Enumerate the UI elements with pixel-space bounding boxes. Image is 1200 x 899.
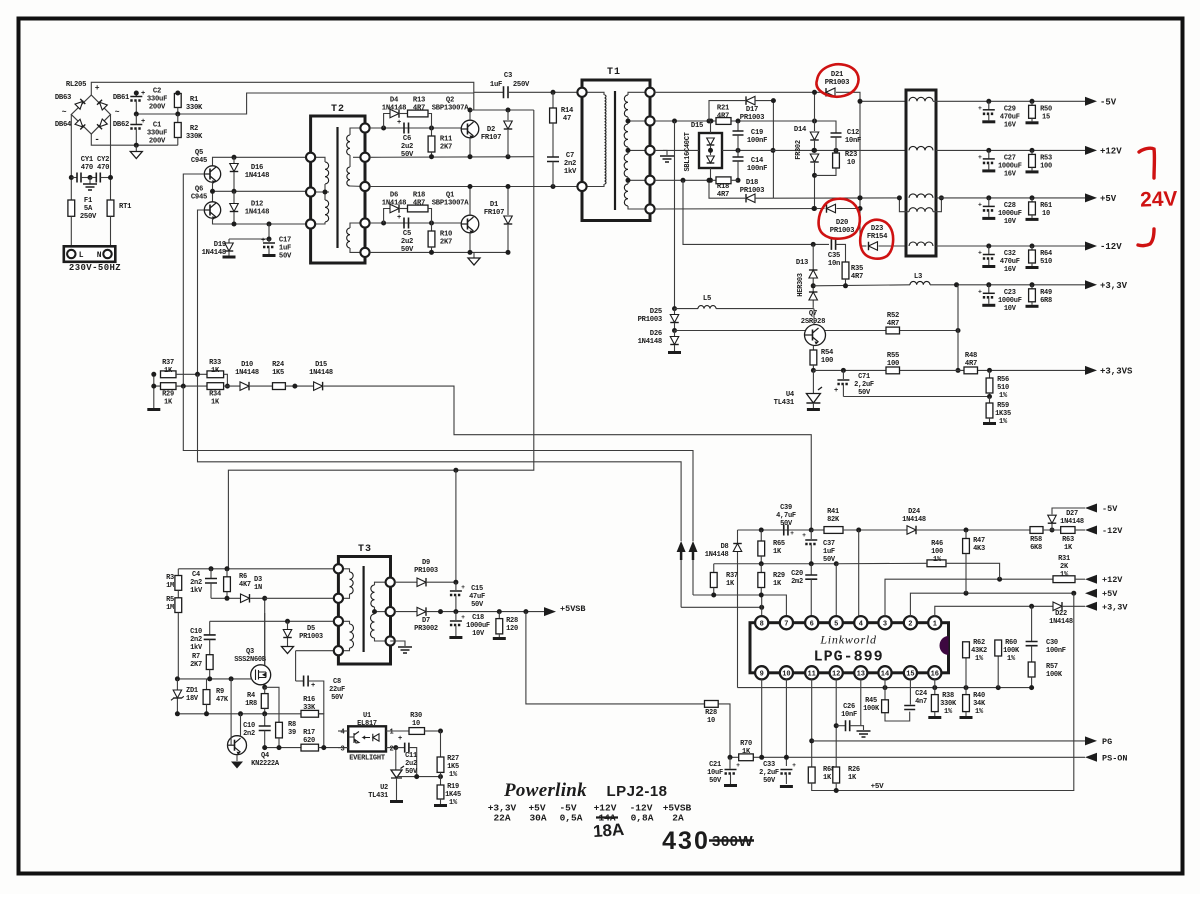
svg-text:12: 12	[832, 671, 840, 679]
svg-text:N: N	[97, 251, 102, 260]
svg-text:R64: R64	[1040, 250, 1052, 258]
junction	[181, 384, 186, 389]
wire Q7 collector	[813, 309, 815, 325]
resistor R45 100K	[884, 688, 886, 700]
svg-text:Q6: Q6	[195, 186, 203, 194]
svg-text:50V: 50V	[331, 694, 344, 702]
T3 secondary coil 1	[371, 585, 375, 607]
T1 terminal right 5	[645, 204, 654, 213]
svg-text:C10: C10	[190, 628, 202, 636]
svg-text:4R7: 4R7	[413, 200, 425, 208]
junction	[262, 596, 267, 601]
svg-text:R13: R13	[413, 97, 425, 105]
resistor R47 4K3	[965, 530, 967, 539]
T1 terminal right 3	[645, 146, 654, 155]
svg-text:1K35: 1K35	[995, 410, 1011, 418]
junction	[858, 206, 863, 211]
wire to D15 diode	[285, 385, 313, 387]
resistor R8 39	[276, 722, 283, 738]
svg-text:PR3002: PR3002	[414, 625, 438, 633]
capacitor C15 47uF 50V	[455, 582, 457, 590]
wire pin13 down to C26	[860, 679, 862, 726]
svg-text:R41: R41	[827, 508, 839, 516]
resistor R56 510 1%	[989, 370, 991, 378]
svg-text:T3: T3	[358, 544, 372, 555]
svg-text:100: 100	[931, 548, 943, 556]
svg-text:10uF: 10uF	[707, 769, 723, 777]
resistor R18 4R7	[408, 205, 429, 212]
capacitor C23 1000uF 10V	[986, 282, 991, 287]
svg-text:L5: L5	[703, 295, 711, 303]
svg-text:1K: 1K	[726, 580, 735, 588]
svg-text:R47: R47	[973, 537, 985, 545]
svg-text:4: 4	[859, 621, 863, 629]
resistor R68 1K	[808, 767, 815, 783]
svg-text:120: 120	[506, 625, 518, 633]
svg-text:1K: 1K	[848, 774, 857, 782]
MOSFET Q3 SSS2N60B	[251, 665, 271, 685]
junction	[267, 237, 272, 242]
resistor R6 4K7	[226, 569, 228, 577]
T3 terminal left 3	[334, 617, 343, 626]
wire D3 row	[211, 597, 241, 599]
svg-text:1R8: 1R8	[245, 700, 257, 708]
wire pin4 stub	[338, 730, 348, 732]
svg-text:RT1: RT1	[119, 203, 132, 211]
svg-text:R63: R63	[1062, 536, 1074, 544]
junction	[812, 206, 817, 211]
transistor Q6 C945	[204, 202, 220, 218]
svg-text:50V: 50V	[401, 151, 414, 159]
junction	[204, 711, 209, 716]
choke coil -12V	[909, 242, 933, 246]
svg-text:C8: C8	[333, 678, 341, 686]
svg-text:+: +	[398, 735, 402, 743]
svg-text:R19: R19	[447, 783, 459, 791]
wire C3 to T1	[553, 91, 582, 93]
junction	[759, 755, 764, 760]
diode D22 1N4148	[1053, 602, 1062, 611]
wire T2 pin5 row	[370, 251, 508, 253]
connector arrow up 2	[692, 552, 694, 595]
svg-text:Q5: Q5	[195, 149, 203, 157]
wire under-IC rail	[738, 687, 1032, 689]
svg-text:22A: 22A	[493, 813, 510, 824]
svg-text:HER303: HER303	[797, 273, 805, 297]
wire +12V rail from T1	[655, 120, 711, 122]
junction	[708, 148, 713, 153]
junction	[812, 119, 817, 124]
svg-text:-12V: -12V	[1100, 242, 1122, 252]
svg-text:470 470: 470 470	[81, 164, 109, 172]
T2 terminal left 2	[306, 187, 315, 196]
junction	[812, 148, 817, 153]
junction	[812, 173, 817, 178]
bridge diode DB64	[75, 119, 85, 129]
resistor R11 2K7	[431, 128, 433, 136]
T2 terminal right 5	[360, 248, 369, 257]
svg-text:+5V: +5V	[1100, 194, 1117, 204]
resistor R23 10	[835, 150, 837, 153]
wire pin3 from R17	[338, 747, 348, 749]
svg-text:R60: R60	[1005, 639, 1017, 647]
junction	[468, 108, 473, 113]
T2 terminal right 3	[360, 182, 369, 191]
svg-text:R38: R38	[942, 692, 954, 700]
junction	[759, 528, 764, 533]
choke coil +5V b	[909, 208, 933, 212]
junction	[626, 119, 631, 124]
junction	[1029, 685, 1034, 690]
IC pin 3	[878, 616, 891, 629]
resistor R33 1K	[207, 371, 224, 378]
junction	[809, 561, 814, 566]
svg-text:7: 7	[784, 621, 788, 629]
T1 terminal right 1	[645, 88, 654, 97]
wire R16 to column	[319, 714, 324, 748]
svg-text:EL817: EL817	[357, 720, 377, 728]
junction	[225, 384, 230, 389]
shunt regulator U2 TL431	[391, 770, 402, 778]
svg-text:2K7: 2K7	[190, 661, 202, 669]
resistor R14 47	[552, 92, 554, 108]
wire pin14 down	[884, 679, 886, 688]
wire -5V rectifier rail	[655, 91, 823, 93]
junction	[672, 328, 677, 333]
junction	[834, 561, 839, 566]
svg-text:C21: C21	[709, 761, 721, 769]
svg-text:1%: 1%	[975, 708, 984, 716]
wire down to C17/D19	[268, 224, 270, 239]
svg-text:R40: R40	[973, 692, 985, 700]
wire D3 row to T3 pin1	[265, 597, 339, 599]
svg-text:R56: R56	[997, 376, 1009, 384]
capacitor C18 1000uF 10V	[455, 612, 457, 620]
svg-text:R3: R3	[166, 574, 174, 582]
junction	[229, 676, 234, 681]
svg-text:R46: R46	[931, 540, 943, 548]
svg-text:1K5: 1K5	[447, 763, 459, 771]
svg-text:1N: 1N	[254, 584, 262, 592]
svg-text:C39: C39	[780, 504, 792, 512]
diode D27 1N4148	[1051, 524, 1053, 530]
wire +3,3V rail	[813, 285, 910, 286]
svg-text:330uF: 330uF	[147, 130, 167, 138]
junction	[175, 91, 180, 96]
wire Q5 base	[183, 174, 204, 386]
svg-text:4: 4	[341, 729, 345, 737]
ground below C1	[135, 145, 137, 151]
svg-text:D18: D18	[746, 179, 758, 187]
diode D10 1N4148	[240, 382, 249, 391]
wire lower row	[177, 713, 323, 715]
wire +5V output row	[936, 197, 1085, 199]
svg-text:PG: PG	[1102, 737, 1112, 747]
svg-text:SBP13007A: SBP13007A	[432, 105, 470, 113]
wire PG row	[812, 740, 1085, 742]
svg-text:-5V: -5V	[1102, 504, 1118, 514]
svg-text:R33: R33	[209, 359, 221, 367]
wire pin12 down	[835, 679, 837, 767]
svg-text:+: +	[978, 154, 982, 161]
svg-text:100nF: 100nF	[1046, 647, 1066, 655]
wire +5VSB drop to R28(10)	[526, 612, 705, 704]
wire Q4 emitter + ground	[236, 755, 238, 761]
wire Q5 emitter / Q6 collector row	[212, 182, 214, 202]
svg-text:F1: F1	[84, 197, 93, 205]
svg-text:2: 2	[390, 745, 394, 753]
svg-text:+: +	[802, 532, 806, 539]
wire +5V row to choke bracket	[773, 197, 899, 199]
resistor R29 1K	[161, 383, 177, 390]
svg-text:D16: D16	[251, 164, 263, 172]
junction	[858, 99, 863, 104]
T2 secondary internal wires	[350, 128, 365, 135]
svg-text:D22: D22	[1055, 610, 1067, 618]
junction	[964, 591, 969, 596]
capacitor C19 100nF	[737, 121, 739, 131]
resistor R5 1M	[177, 590, 179, 598]
junction	[292, 384, 297, 389]
capacitor C26 10nF	[836, 725, 845, 727]
svg-text:510: 510	[1040, 258, 1052, 266]
fuse F1	[68, 200, 75, 216]
svg-text:2K7: 2K7	[440, 144, 452, 152]
svg-text:250V: 250V	[513, 81, 530, 89]
svg-text:+: +	[397, 119, 401, 127]
capacitor C5 2u2 50V	[404, 218, 409, 229]
svg-text:+3,3V: +3,3V	[1100, 281, 1128, 291]
D15 upper diode	[707, 138, 715, 145]
svg-text:14: 14	[881, 671, 889, 679]
capacitor C7 2n2 1kV	[547, 157, 559, 162]
wire row y563.75	[714, 563, 837, 565]
junction	[834, 148, 839, 153]
svg-text:10: 10	[1042, 210, 1050, 218]
svg-text:Q2: Q2	[446, 97, 454, 105]
svg-text:1: 1	[933, 621, 937, 629]
PG arrow	[1085, 736, 1097, 745]
svg-text:FR154: FR154	[867, 233, 888, 241]
capacitor C12 10nF	[835, 130, 837, 133]
junction	[267, 222, 272, 227]
svg-text:1K: 1K	[211, 399, 220, 407]
svg-text:TL431: TL431	[368, 792, 388, 800]
svg-text:1K: 1K	[773, 580, 782, 588]
wire Q1 collector	[469, 187, 471, 216]
svg-text:SSS2N60B: SSS2N60B	[234, 656, 267, 664]
svg-text:34K: 34K	[973, 700, 986, 708]
junction	[812, 148, 817, 153]
svg-text:33K: 33K	[303, 704, 316, 712]
wire Q3 source	[264, 685, 266, 688]
svg-text:1K: 1K	[742, 748, 751, 756]
svg-text:18A: 18A	[592, 820, 624, 841]
svg-text:C7: C7	[566, 152, 574, 160]
junction	[88, 175, 93, 180]
svg-text:R18: R18	[717, 183, 729, 191]
svg-text:D27: D27	[1066, 510, 1078, 518]
T2 primary coil upper	[325, 162, 329, 184]
T1 secondary coil 2	[624, 124, 628, 147]
svg-text:EVERLIGHT: EVERLIGHT	[349, 755, 385, 763]
svg-text:1N4148: 1N4148	[382, 200, 406, 208]
wire pin9 down to R70 row	[761, 679, 763, 757]
junction	[707, 119, 712, 124]
wire Q6 emitter row to T2 pin	[213, 218, 311, 224]
svg-text:R62: R62	[973, 639, 985, 647]
junction	[108, 175, 113, 180]
wire pin7 row	[693, 595, 786, 617]
svg-text:D4: D4	[390, 97, 399, 105]
capacitor C10 2n2 (b)	[264, 714, 266, 726]
junction	[1071, 591, 1076, 596]
svg-text:1M: 1M	[166, 582, 174, 590]
junction	[964, 528, 969, 533]
svg-text:C71: C71	[858, 373, 870, 381]
junction	[323, 190, 328, 195]
junction	[209, 566, 214, 571]
junction	[262, 711, 267, 716]
T1 secondary coil 4	[624, 184, 628, 206]
svg-text:L: L	[79, 251, 84, 260]
svg-text:1000uF: 1000uF	[998, 297, 1022, 305]
capacitor C24 4n7	[909, 679, 911, 705]
svg-text:4R7: 4R7	[851, 273, 863, 281]
svg-text:1N4148: 1N4148	[382, 105, 406, 113]
svg-text:8: 8	[760, 621, 764, 629]
resistor R49 6R8	[1030, 282, 1035, 287]
resistor R26 1K	[833, 767, 840, 783]
svg-text:U4: U4	[786, 391, 795, 399]
junction	[262, 685, 267, 690]
resistor R62 43K2 1%	[965, 642, 967, 688]
svg-text:1kV: 1kV	[190, 644, 203, 652]
wire pin8 column	[761, 595, 763, 617]
svg-text:1K: 1K	[164, 399, 173, 407]
svg-text:+: +	[397, 214, 401, 222]
junction	[69, 175, 74, 180]
wire T2 pin to Q2 base row	[370, 127, 463, 129]
T3 terminal right 1	[386, 578, 395, 587]
junction	[506, 108, 511, 113]
junction	[429, 250, 434, 255]
svg-text:16V: 16V	[1004, 170, 1017, 178]
svg-text:Linkworld: Linkworld	[819, 633, 877, 647]
svg-text:4R7: 4R7	[887, 320, 899, 328]
T2 terminal right 4	[360, 218, 369, 227]
resistor R10 2K7	[431, 223, 433, 231]
svg-text:D25: D25	[650, 308, 662, 316]
output arrow -5V	[1085, 97, 1097, 106]
svg-text:+: +	[978, 288, 982, 295]
junction	[134, 143, 139, 148]
svg-text:D5: D5	[307, 625, 315, 633]
svg-text:Q1: Q1	[446, 192, 455, 200]
svg-text:SBP13007A: SBP13007A	[432, 200, 470, 208]
T1 terminal right 2	[645, 116, 654, 125]
svg-text:1%: 1%	[449, 799, 458, 807]
T3 primary internal wires	[338, 569, 349, 572]
wire pin10 down to C33	[785, 679, 787, 766]
diode D20 PR1003	[827, 204, 836, 213]
wire Q2 collector	[469, 110, 471, 120]
svg-text:D26: D26	[650, 330, 662, 338]
IC pin 11	[805, 666, 818, 679]
svg-text:R48: R48	[965, 352, 977, 360]
svg-text:+: +	[978, 201, 982, 208]
junction	[759, 561, 764, 566]
svg-text:1K: 1K	[1064, 544, 1073, 552]
svg-text:10V: 10V	[472, 630, 485, 638]
junction	[736, 119, 741, 124]
junction	[551, 184, 556, 189]
wire R17 row	[265, 747, 301, 749]
svg-text:620: 620	[303, 737, 315, 745]
wire bridge right lead to N terminal	[110, 115, 112, 201]
wire +5V stub rail	[812, 593, 1074, 790]
transistor Q7 2SR928	[805, 325, 826, 346]
wire +12V output row	[936, 149, 1085, 151]
svg-text:2u2: 2u2	[405, 760, 417, 768]
capacitor C27 1000uF 16V	[986, 148, 991, 153]
wire pin11 down	[811, 679, 813, 767]
diode D14 FR302 upper	[810, 132, 819, 140]
svg-text:330K: 330K	[186, 133, 203, 141]
svg-text:R9: R9	[216, 688, 224, 696]
wire Q3 drain	[264, 613, 266, 665]
EL817 LED	[373, 734, 379, 741]
svg-text:FR302: FR302	[795, 140, 803, 160]
svg-text:C33: C33	[763, 761, 775, 769]
junction	[811, 283, 816, 288]
svg-text:D13: D13	[796, 259, 808, 267]
capacitor C10 2n2 1kV (a)	[209, 621, 211, 635]
svg-text:C35: C35	[828, 252, 840, 260]
T2 secondary coil 2	[347, 167, 350, 186]
svg-text:4R7: 4R7	[965, 360, 977, 368]
choke coil -5V	[909, 97, 933, 101]
wire pin1 to R30	[386, 730, 409, 732]
svg-text:2K: 2K	[1060, 563, 1069, 571]
svg-text:2A: 2A	[672, 813, 684, 824]
wire bridge left lead to L terminal	[70, 115, 72, 201]
capacitor C4 2n2 1kV	[210, 569, 212, 579]
wire T2 pin2 row	[370, 156, 534, 159]
resistor R3 1M	[177, 569, 179, 576]
svg-text:+: +	[792, 762, 796, 769]
IC pin 14	[878, 666, 891, 679]
wire R27 column	[440, 731, 442, 757]
wire feedback D15 row	[154, 385, 184, 387]
svg-text:RL205: RL205	[66, 81, 86, 89]
svg-text:R21: R21	[717, 105, 730, 113]
svg-text:100nF: 100nF	[747, 137, 767, 145]
svg-text:1N4148: 1N4148	[902, 516, 926, 524]
resistor R40 34K 1%	[965, 688, 967, 695]
junction	[672, 119, 677, 124]
junction	[232, 189, 237, 194]
junction	[956, 328, 961, 333]
svg-text:Q3: Q3	[246, 648, 254, 656]
junction	[897, 195, 902, 200]
svg-text:DB63: DB63	[55, 94, 71, 102]
svg-text:1%: 1%	[999, 418, 1008, 426]
svg-text:1: 1	[390, 729, 394, 737]
wire C71 bottom / TL431 ref to R56 junction	[843, 396, 989, 398]
diode D14 FR302 lower	[810, 154, 819, 162]
svg-text:1kV: 1kV	[564, 168, 577, 176]
